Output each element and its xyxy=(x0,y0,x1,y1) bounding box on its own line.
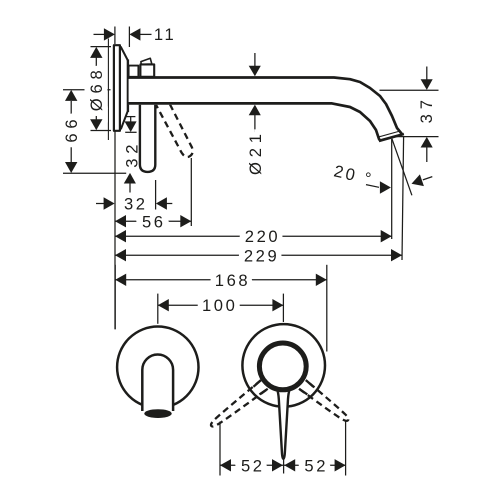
svg-text:66: 66 xyxy=(62,115,81,143)
svg-text:32: 32 xyxy=(123,140,142,168)
svg-text:32: 32 xyxy=(124,195,148,214)
svg-text:37: 37 xyxy=(417,95,436,123)
svg-text:Ø21: Ø21 xyxy=(246,129,265,175)
svg-text:52: 52 xyxy=(304,456,328,475)
svg-text:100: 100 xyxy=(202,296,238,315)
svg-text:Ø68: Ø68 xyxy=(87,65,106,111)
svg-text:220: 220 xyxy=(245,227,281,246)
svg-text:56: 56 xyxy=(142,212,166,231)
svg-text:11: 11 xyxy=(154,25,176,44)
svg-text:229: 229 xyxy=(244,246,280,265)
svg-text:168: 168 xyxy=(215,271,251,290)
svg-text:52: 52 xyxy=(241,456,265,475)
